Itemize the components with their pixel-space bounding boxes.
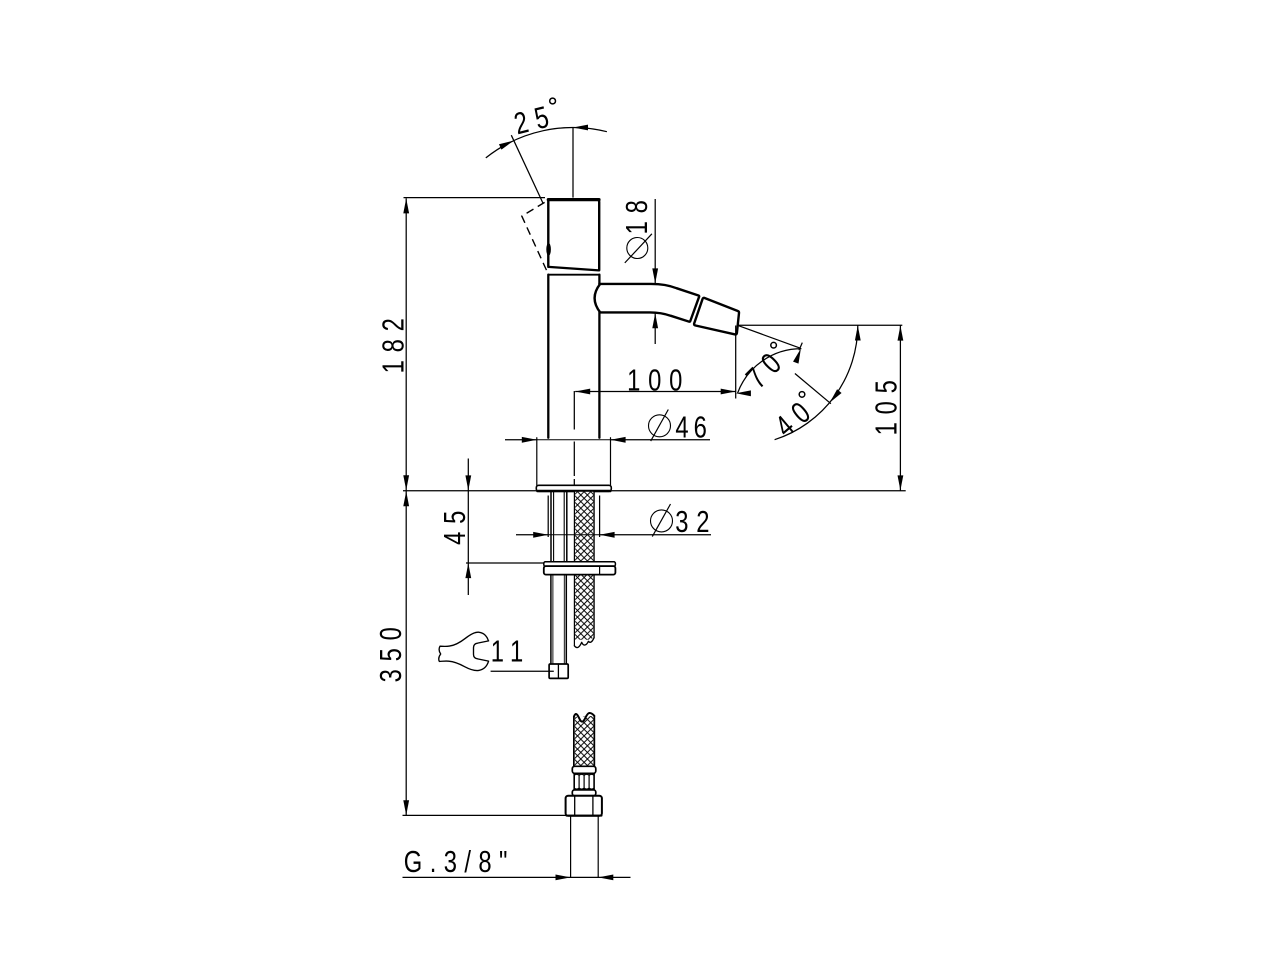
aerator tip (694, 298, 739, 335)
neck joint line (548, 274, 599, 276)
25deg: vertical ref line (572, 127, 574, 198)
svg-text:46: 46 (675, 410, 712, 445)
tube end fitting (11mm) (549, 664, 568, 678)
hose upper segment (573, 492, 575, 646)
arrowhead 100 left (575, 389, 590, 395)
O32 slash (652, 504, 670, 537)
45 bottom extension (466, 562, 544, 564)
arrowhead 182 top (403, 198, 409, 213)
arrowhead G3/8 right (598, 875, 613, 881)
arrowhead O32 left (533, 532, 548, 538)
O32 dim line left (516, 534, 548, 536)
182 dimension line (405, 198, 407, 490)
supply tube below nut (550, 575, 552, 664)
100 right extension (735, 326, 737, 399)
arrowhead O46 right (611, 437, 626, 443)
svg-text:100: 100 (627, 363, 690, 398)
lower collar band (572, 790, 596, 796)
svg-text:350: 350 (373, 619, 408, 682)
O18 slash (625, 234, 652, 263)
spout (595, 284, 700, 322)
O32 extension left (547, 496, 549, 538)
arrowhead 182 bottom (403, 475, 409, 490)
100 dimension line (575, 391, 736, 393)
arrowhead 70deg arc top (793, 348, 804, 364)
G3/8 tube (570, 816, 572, 877)
105 dimension line (899, 325, 901, 490)
body right edge lower (598, 312, 600, 438)
arrowhead 40deg arc top (855, 326, 861, 341)
O46 dim line across body (537, 439, 611, 441)
base skirt lines (Ø46 extension) (536, 438, 538, 486)
body right edge upper (598, 275, 600, 285)
ray B 70deg (738, 325, 801, 348)
svg-text:18: 18 (619, 192, 654, 234)
350 dimension line (405, 491, 407, 816)
svg-text:32: 32 (675, 504, 717, 539)
O46 dim line left (505, 439, 537, 441)
ray A horizontal from tip (738, 324, 903, 326)
arrowhead O46 left (522, 437, 537, 443)
100 left extension (centerline, dashed) (573, 391, 575, 486)
O18 dim line upper (654, 199, 656, 283)
40deg arc (775, 325, 858, 439)
350 bottom extension (403, 814, 567, 816)
baseline (worktop) (403, 490, 906, 492)
11 leader (491, 670, 554, 672)
arrowhead O18 bottom (652, 313, 658, 328)
arrowhead 350 bottom (403, 800, 409, 815)
arrowhead 100 right (721, 389, 736, 395)
arrowhead 45 bottom (465, 563, 471, 578)
hose lower segment (573, 717, 575, 766)
O46 dim line right (611, 439, 710, 441)
G3/8 dimension line (403, 876, 631, 878)
handle cap (548, 199, 599, 270)
body left edge (547, 275, 549, 438)
lock nut (544, 566, 616, 575)
svg-text:11: 11 (491, 634, 531, 669)
O18 dim line lower (654, 313, 656, 344)
ray C 40deg (795, 374, 831, 404)
degree mark 40 (799, 392, 805, 398)
svg-text:105: 105 (869, 372, 904, 435)
lock nut washer (544, 562, 616, 566)
O32 dim line across (548, 534, 599, 536)
45 dimension line (467, 459, 469, 596)
handle pivot dot (546, 243, 551, 256)
handle bottom edge (549, 267, 599, 271)
arrowhead 25deg arc right (573, 125, 588, 131)
arrowhead 25deg arc left (499, 138, 515, 150)
corrugated section (573, 773, 575, 790)
degree mark 25 (550, 98, 556, 104)
svg-text:G.3/8": G.3/8" (404, 844, 515, 879)
hex nut (566, 796, 602, 816)
diameter symbol O18 (627, 238, 648, 259)
25deg arc (486, 128, 607, 158)
base flange (536, 485, 611, 491)
arrowhead 105 top (898, 326, 904, 341)
arrowhead O32 right (600, 532, 615, 538)
svg-text:182: 182 (376, 310, 411, 373)
diameter symbol O46 (649, 415, 671, 437)
hose crimp collar (572, 766, 596, 773)
supply tube above lock nut (550, 492, 552, 562)
O32 dim line right (600, 534, 711, 536)
O46 slash (651, 410, 669, 442)
arrowhead G3/8 left (556, 875, 571, 881)
diameter symbol O32 (651, 510, 673, 532)
arrowhead O18 top (652, 268, 658, 283)
25deg: tilted ref line (511, 135, 543, 203)
degree mark 70 (771, 342, 777, 348)
O32 extension right (599, 496, 601, 538)
70deg arc (738, 349, 802, 394)
arrowhead 350 top (403, 491, 409, 506)
ray B end tick (799, 343, 802, 351)
182: top extension (404, 197, 546, 199)
arrowhead 40deg arc mid (827, 389, 841, 404)
arrowhead 105 bottom (898, 475, 904, 490)
arrowhead 70deg arc bottom (736, 390, 751, 396)
arrowhead 45 top (465, 475, 471, 490)
svg-text:45: 45 (437, 503, 472, 545)
